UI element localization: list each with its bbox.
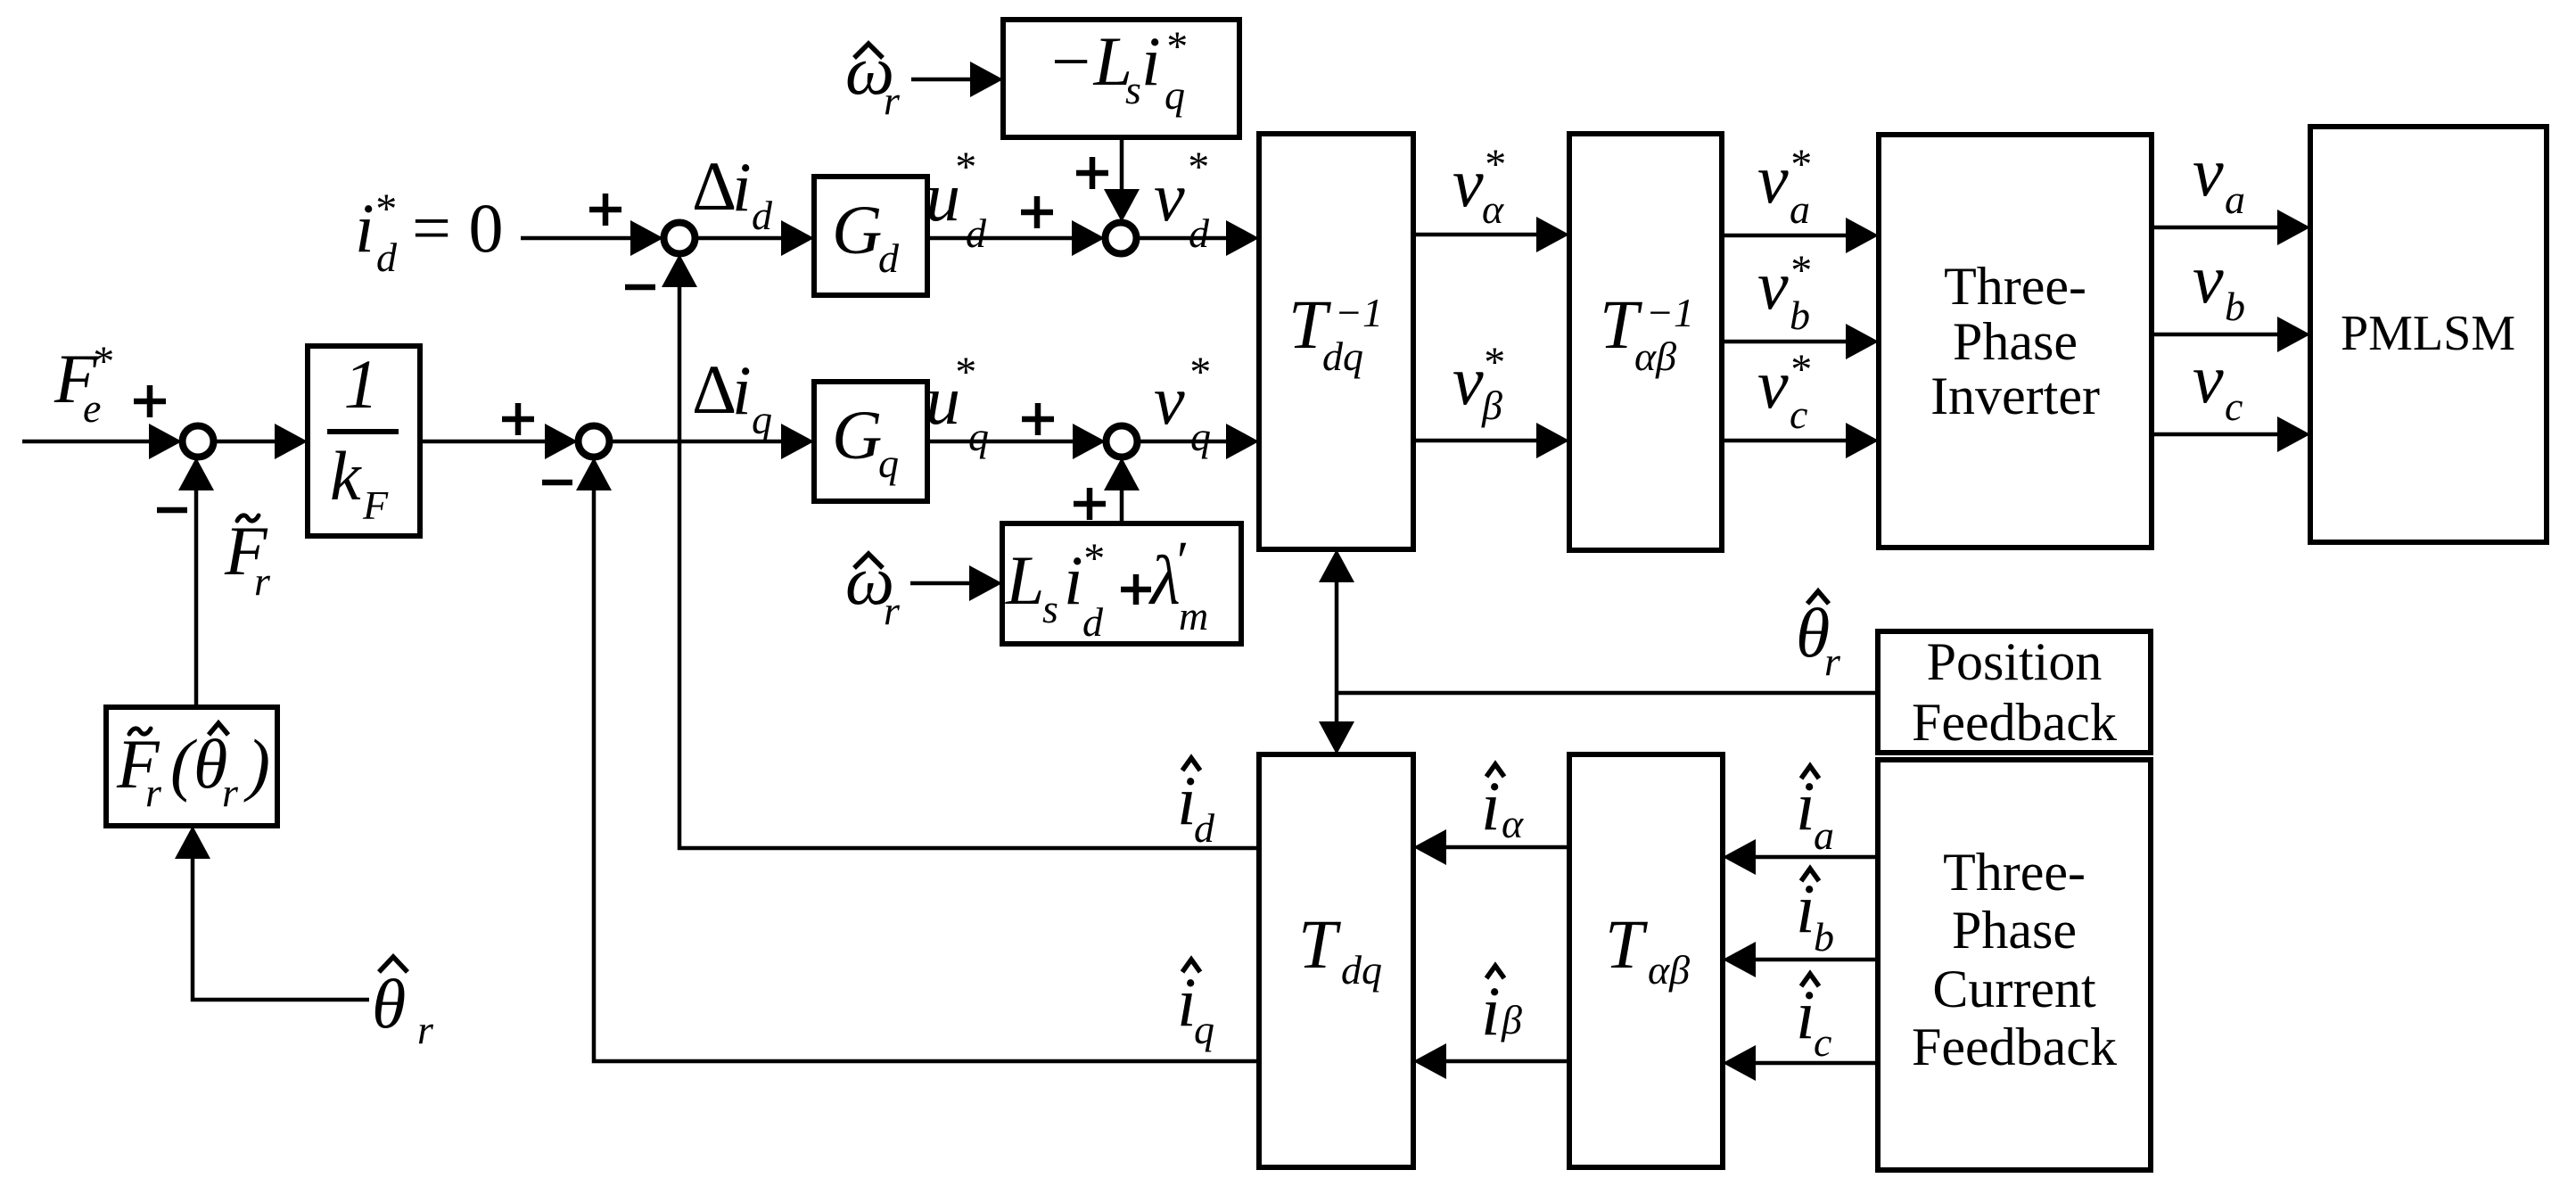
svg-text:b: b	[1814, 914, 1834, 960]
svg-text:r: r	[884, 78, 901, 123]
svg-text:*: *	[953, 144, 975, 191]
svg-text:*: *	[1483, 141, 1504, 188]
svg-text:*: *	[1789, 247, 1810, 294]
svg-text:b: b	[2225, 284, 2245, 329]
svg-text:d: d	[1194, 805, 1215, 851]
svg-text:v: v	[1154, 361, 1185, 439]
svg-text:i: i	[1064, 541, 1083, 619]
svg-text:i: i	[732, 148, 752, 226]
svg-text:αβ: αβ	[1634, 334, 1676, 379]
svg-text:q: q	[878, 441, 899, 486]
svg-text:Three-: Three-	[1944, 257, 2086, 316]
svg-text:′: ′	[1173, 531, 1187, 592]
svg-text:d: d	[966, 210, 987, 256]
svg-text:β: β	[1501, 997, 1522, 1042]
svg-text:r: r	[1824, 639, 1841, 684]
svg-text:L: L	[1005, 541, 1044, 619]
svg-text:c: c	[1814, 1019, 1831, 1065]
svg-text:q: q	[968, 414, 989, 459]
svg-text:*: *	[1188, 349, 1209, 396]
svg-text:v: v	[1453, 144, 1484, 221]
svg-text:Δ: Δ	[692, 147, 737, 225]
svg-text:α: α	[1502, 801, 1524, 846]
svg-text:d: d	[878, 235, 900, 281]
svg-text:a: a	[2225, 177, 2245, 222]
svg-text:F: F	[362, 482, 389, 528]
svg-text:Feedback: Feedback	[1912, 1018, 2117, 1076]
svg-text:β: β	[1481, 383, 1502, 428]
svg-text:−L: −L	[1047, 22, 1132, 100]
svg-text:r: r	[254, 558, 271, 604]
svg-text:Current: Current	[1932, 960, 2096, 1018]
svg-text:r: r	[145, 770, 162, 815]
svg-text:v: v	[1757, 345, 1789, 423]
svg-text:Feedback: Feedback	[1912, 693, 2117, 752]
svg-text:*: *	[1082, 535, 1103, 582]
svg-text:Inverter: Inverter	[1930, 367, 2100, 425]
svg-text:r: r	[884, 588, 901, 633]
svg-text:T: T	[1605, 905, 1648, 983]
svg-text:αβ: αβ	[1648, 947, 1690, 993]
svg-text:Position: Position	[1927, 632, 2103, 691]
svg-text:α: α	[1482, 186, 1504, 232]
svg-text:b: b	[1790, 293, 1810, 338]
svg-text:c: c	[1790, 391, 1807, 437]
svg-text:*: *	[374, 185, 395, 233]
svg-text:v: v	[1453, 342, 1484, 419]
svg-text:q: q	[752, 397, 772, 442]
svg-text:a: a	[1814, 812, 1834, 858]
svg-text:v: v	[1757, 246, 1789, 324]
svg-text:q: q	[1190, 414, 1211, 459]
svg-text:s: s	[1125, 67, 1141, 112]
svg-text:m: m	[1179, 593, 1208, 639]
svg-text:dq: dq	[1341, 947, 1382, 993]
svg-text:G: G	[832, 396, 882, 474]
svg-text:q: q	[1194, 1007, 1214, 1052]
svg-text:i: i	[1796, 976, 1815, 1053]
svg-text:i: i	[732, 351, 752, 429]
svg-text:−1: −1	[1335, 290, 1383, 335]
svg-text:q: q	[1165, 72, 1185, 118]
svg-text:i: i	[1141, 22, 1161, 100]
svg-text:d: d	[752, 193, 773, 238]
svg-text:i: i	[1796, 767, 1815, 845]
svg-text:*: *	[1482, 339, 1503, 386]
svg-text:*: *	[1789, 141, 1810, 188]
svg-text:Phase: Phase	[1953, 312, 2078, 371]
svg-text:i: i	[1796, 869, 1815, 947]
svg-text:Δ: Δ	[692, 350, 737, 428]
svg-text:*: *	[953, 349, 975, 396]
svg-text:d: d	[1082, 599, 1104, 645]
svg-text:v: v	[2193, 133, 2224, 210]
svg-text:a: a	[1790, 186, 1810, 232]
svg-text:dq: dq	[1322, 334, 1363, 379]
svg-text:e: e	[83, 385, 101, 431]
svg-text:PMLSM: PMLSM	[2341, 306, 2515, 361]
svg-text:v: v	[2193, 340, 2224, 417]
svg-text:T: T	[1298, 905, 1341, 983]
svg-text:*: *	[91, 338, 112, 385]
svg-text:): )	[243, 725, 270, 803]
svg-text:v: v	[2193, 240, 2224, 317]
svg-text:G: G	[832, 191, 882, 268]
svg-text:*: *	[1789, 346, 1810, 393]
svg-text:v: v	[1154, 158, 1185, 235]
svg-text:d: d	[1189, 210, 1210, 256]
svg-text:Phase: Phase	[1952, 901, 2077, 960]
svg-text:*: *	[1165, 23, 1186, 70]
svg-text:v: v	[1757, 140, 1789, 218]
svg-text:k: k	[330, 437, 362, 515]
svg-text:i: i	[355, 189, 374, 267]
svg-text:*: *	[1186, 144, 1207, 191]
svg-text:r: r	[222, 770, 239, 815]
svg-text:−1: −1	[1646, 290, 1694, 335]
svg-text:i: i	[1481, 972, 1501, 1050]
svg-text:s: s	[1042, 586, 1058, 631]
svg-text:r: r	[417, 1007, 434, 1052]
svg-text:= 0: = 0	[412, 189, 504, 267]
svg-text:1: 1	[344, 345, 379, 423]
svg-text:Three-: Three-	[1943, 843, 2086, 902]
svg-text:d: d	[376, 235, 398, 280]
svg-text:c: c	[2225, 383, 2243, 429]
svg-text:i: i	[1481, 767, 1501, 845]
svg-text:θ: θ	[372, 965, 406, 1042]
